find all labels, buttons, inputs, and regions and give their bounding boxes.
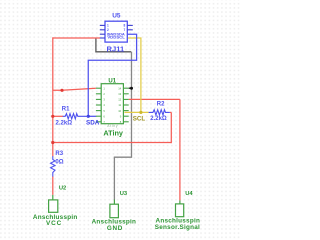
svg-text:2.2kΩ: 2.2kΩ xyxy=(150,116,167,122)
svg-text:8: 8 xyxy=(124,24,126,28)
svg-text:14: 14 xyxy=(118,86,121,90)
svg-text:2.2kΩ: 2.2kΩ xyxy=(56,120,73,126)
svg-text:12: 12 xyxy=(118,98,121,102)
svg-text:SDA: SDA xyxy=(86,119,100,126)
svg-text:ATiny: ATiny xyxy=(103,128,124,137)
svg-text:U3: U3 xyxy=(120,191,128,197)
svg-text:0Ω: 0Ω xyxy=(55,159,63,165)
svg-text:VDDSCL: VDDSCL xyxy=(107,36,125,40)
svg-text:U4: U4 xyxy=(185,191,193,197)
svg-text:1: 1 xyxy=(107,24,109,28)
svg-text:SCL: SCL xyxy=(133,116,146,123)
svg-text:Sensor.Signal: Sensor.Signal xyxy=(155,224,200,231)
svg-text:GND: GND xyxy=(107,225,123,232)
svg-text:10: 10 xyxy=(118,109,121,113)
svg-text:U5: U5 xyxy=(112,13,121,20)
svg-text:U1: U1 xyxy=(108,78,116,84)
svg-text:R1: R1 xyxy=(62,106,70,112)
svg-text:R2: R2 xyxy=(157,101,165,107)
svg-text:U2: U2 xyxy=(59,186,66,192)
svg-text:13: 13 xyxy=(118,92,121,96)
svg-text:R3: R3 xyxy=(55,151,63,157)
svg-text:RJ11: RJ11 xyxy=(107,44,126,53)
svg-text:VCC: VCC xyxy=(46,220,62,227)
